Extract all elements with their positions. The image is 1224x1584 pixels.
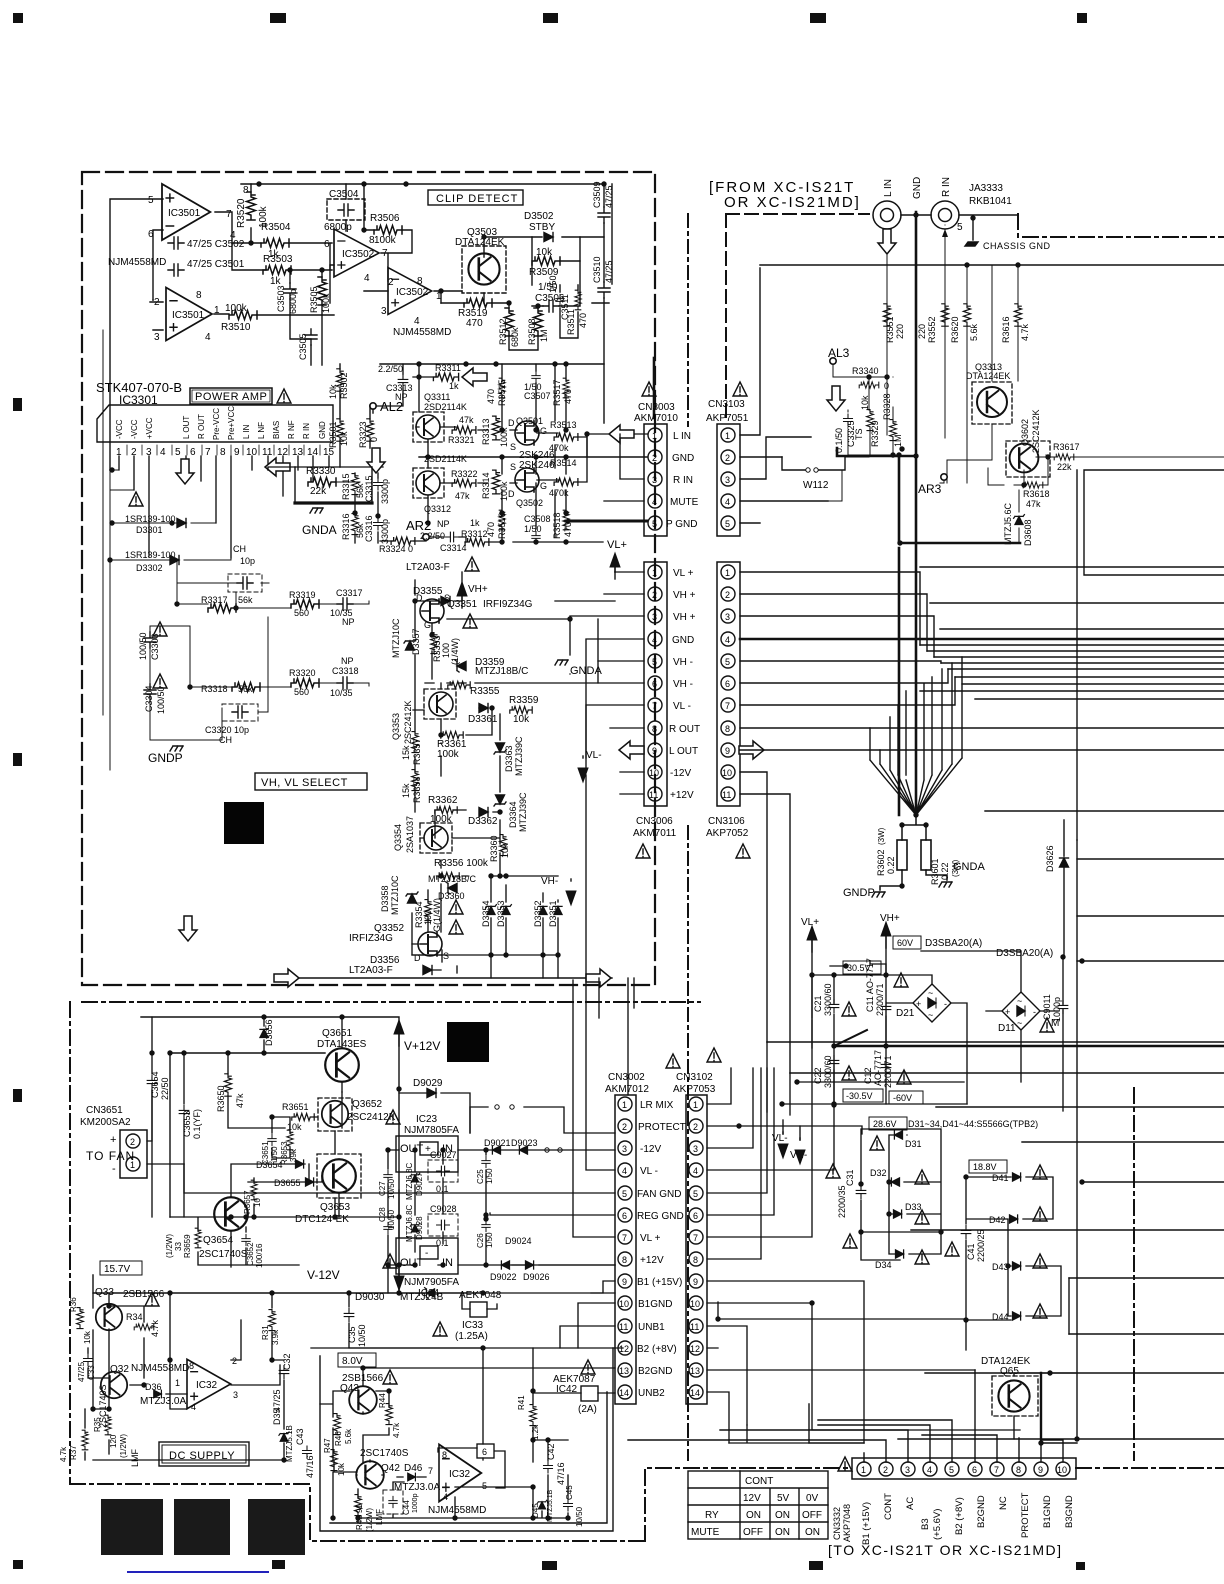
- capacitor C3325: [844, 414, 853, 426]
- thick drops to fan: [898, 548, 901, 815]
- capacitor C3651: [268, 1134, 276, 1145]
- svg-text:C26: C26: [476, 1233, 485, 1248]
- svg-text:LR MIX: LR MIX: [640, 1100, 674, 1111]
- svg-text:V-12V: V-12V: [307, 1268, 340, 1282]
- svg-text:C9011: C9011: [1042, 994, 1052, 1020]
- capacitor C3501: [168, 264, 184, 276]
- svg-text:10/35: 10/35: [330, 688, 353, 698]
- svg-text:8: 8: [369, 235, 375, 246]
- svg-text:B1GND: B1GND: [638, 1299, 672, 1310]
- pin numbers: [116, 447, 335, 458]
- bus pin1 VL+: [740, 572, 920, 645]
- svg-text:MUTE: MUTE: [691, 1527, 720, 1538]
- wire thick mute bus: [837, 448, 916, 456]
- resistor R3620 vertical: [963, 304, 970, 326]
- capacitor C3654: [147, 1076, 157, 1089]
- svg-text:IC3501: IC3501: [168, 208, 201, 219]
- ground GNDA: [939, 882, 952, 887]
- svg-text:R3322: R3322: [451, 469, 478, 479]
- diode D32: [891, 1178, 899, 1186]
- svg-text:R3506: R3506: [370, 213, 400, 224]
- svg-text:7: 7: [226, 209, 232, 220]
- svg-text:GNDA: GNDA: [302, 523, 337, 537]
- svg-text:10k: 10k: [337, 1462, 346, 1476]
- wires lower half: [428, 434, 587, 537]
- bus pin2 VH+: [740, 594, 927, 651]
- resistor R3511: [575, 290, 581, 310]
- black blob bottom-left 2: [174, 1499, 230, 1555]
- hollow down arrow left bottom: [179, 916, 197, 941]
- svg-text:CN3102: CN3102: [676, 1072, 713, 1083]
- svg-text:R IN: R IN: [673, 475, 693, 486]
- svg-text:LMF: LMF: [375, 1509, 384, 1525]
- connector CN3103 body: [717, 424, 740, 536]
- svg-text:NP: NP: [437, 519, 450, 529]
- registration mark bottom 3: [542, 1561, 557, 1570]
- svg-text:LMF: LMF: [130, 1448, 140, 1467]
- svg-text:MTZJ18B/C: MTZJ18B/C: [475, 666, 528, 677]
- svg-text:L OUT: L OUT: [182, 416, 191, 439]
- svg-text:AKP7052: AKP7052: [706, 828, 749, 839]
- node AL3: [830, 358, 836, 364]
- svg-text:22k: 22k: [1057, 462, 1072, 472]
- svg-text:POWER AMP: POWER AMP: [195, 391, 267, 403]
- svg-text:5: 5: [693, 1189, 698, 1199]
- svg-text:D35: D35: [272, 1408, 282, 1425]
- diode D43: [1013, 1262, 1021, 1270]
- jack R IN: [931, 201, 959, 229]
- svg-text:C3508: C3508: [524, 514, 551, 524]
- svg-text:BIAS: BIAS: [272, 421, 281, 439]
- svg-text:D3302: D3302: [136, 563, 163, 573]
- registration mark left 3: [13, 753, 22, 766]
- svg-text:VH -: VH -: [673, 657, 693, 668]
- svg-text:10: 10: [1057, 1465, 1067, 1475]
- svg-text:R3514: R3514: [550, 458, 577, 468]
- wires dc supply: [85, 1293, 283, 1460]
- svg-text:CONT: CONT: [883, 1493, 894, 1520]
- registration mark bottom 4: [809, 1561, 823, 1570]
- svg-text:11: 11: [649, 790, 658, 800]
- svg-text:5.6k: 5.6k: [969, 323, 979, 341]
- svg-text:9: 9: [622, 1277, 627, 1287]
- svg-text:MTZJ5.1B: MTZJ5.1B: [285, 1425, 294, 1462]
- svg-text:(3W): (3W): [877, 827, 886, 845]
- svg-text:2SC1740S: 2SC1740S: [360, 1448, 409, 1459]
- svg-text:Q3311: Q3311: [424, 392, 450, 402]
- V+12V arrow: [394, 1020, 404, 1046]
- resistor R44: [386, 1404, 393, 1425]
- op-amp U IC3501b: [166, 287, 212, 340]
- resistor R3316 vertical: [352, 514, 359, 535]
- black blob dc-dc area: [447, 1022, 489, 1062]
- svg-text:VL -: VL -: [673, 701, 691, 712]
- svg-text:5.6k: 5.6k: [344, 1428, 353, 1444]
- svg-text:L IN: L IN: [242, 424, 251, 439]
- svg-text:3: 3: [905, 1465, 910, 1475]
- resistor R3618: [1023, 482, 1043, 488]
- svg-text:8: 8: [622, 1255, 627, 1265]
- svg-text:VH+: VH+: [468, 584, 488, 595]
- svg-text:56k: 56k: [238, 595, 253, 605]
- svg-text:470: 470: [563, 389, 573, 404]
- svg-text:1M: 1M: [539, 329, 549, 342]
- diode D31: [870, 1136, 884, 1150]
- svg-text:10: 10: [690, 1299, 700, 1309]
- svg-text:1: 1: [725, 568, 730, 578]
- svg-text:R3510: R3510: [221, 322, 251, 333]
- registration mark top 4: [810, 13, 826, 23]
- diode D34: [896, 1250, 904, 1258]
- svg-text:VL +: VL +: [673, 568, 694, 579]
- svg-text:2: 2: [388, 277, 394, 288]
- svg-text:D32: D32: [870, 1168, 887, 1178]
- long line y1107: [936, 1106, 1224, 1108]
- svg-text:(1/2W): (1/2W): [365, 1508, 374, 1532]
- svg-text:6: 6: [482, 1447, 487, 1457]
- pin circles CN3103: [721, 428, 735, 442]
- resistor R3506: [374, 226, 402, 235]
- svg-text:C43: C43: [295, 1428, 305, 1445]
- chain separator between AKM and AKP columns lower: [687, 826, 689, 1460]
- svg-text:R3512: R3512: [498, 318, 508, 345]
- svg-text:ON: ON: [746, 1510, 761, 1521]
- resistor R3323 vertical: [366, 419, 373, 441]
- svg-text:2: 2: [130, 1137, 135, 1147]
- resistor R3552 vertical: [941, 304, 948, 326]
- svg-text:AKP7053: AKP7053: [673, 1084, 716, 1095]
- chain border to connector row: [645, 1468, 852, 1541]
- svg-text:R OUT: R OUT: [197, 414, 206, 439]
- pin separators: [127, 445, 320, 455]
- svg-text:TS: TS: [854, 428, 864, 440]
- svg-text:D9024: D9024: [505, 1236, 532, 1246]
- svg-text:IC32: IC32: [449, 1469, 471, 1480]
- svg-text:3300p: 3300p: [380, 519, 390, 544]
- pin circles CN3003: [648, 428, 662, 442]
- svg-text:D9028: D9028: [415, 1216, 424, 1240]
- wires row1: [177, 560, 369, 608]
- svg-text:R3617: R3617: [1053, 442, 1080, 452]
- svg-text:CN3106: CN3106: [708, 816, 745, 827]
- resistor R3516 vertical: [499, 510, 505, 530]
- svg-text:11: 11: [722, 790, 731, 800]
- bus pin6: [740, 669, 948, 683]
- svg-text:1: 1: [725, 431, 730, 441]
- bus GND thick: [740, 638, 1224, 641]
- svg-text:IC32: IC32: [196, 1380, 218, 1391]
- registration mark top 5: [1077, 13, 1087, 23]
- resistor R3551 vertical: [883, 304, 890, 326]
- diode D41: [1013, 1173, 1021, 1181]
- svg-text:R37: R37: [69, 1445, 78, 1460]
- svg-text:VL+: VL+: [607, 539, 627, 551]
- hollow arrow below pin5: [176, 459, 194, 484]
- long line y1373: [925, 1372, 1224, 1374]
- svg-text:4.7k: 4.7k: [1020, 323, 1030, 341]
- svg-text:CN3006: CN3006: [636, 816, 673, 827]
- svg-text:4: 4: [927, 1465, 932, 1475]
- diode D42: [1010, 1215, 1018, 1223]
- svg-text:-: -: [944, 999, 947, 1009]
- regulator IC23: [386, 1110, 400, 1124]
- resistor R3503: [263, 266, 291, 275]
- svg-text:3300/60: 3300/60: [823, 983, 833, 1016]
- svg-text:0.22: 0.22: [886, 856, 896, 874]
- long line y1230: [911, 1229, 1224, 1231]
- svg-text:R47: R47: [323, 1438, 332, 1453]
- svg-text:12: 12: [690, 1344, 700, 1354]
- svg-text:+: +: [916, 999, 921, 1009]
- svg-text:7: 7: [725, 701, 730, 711]
- svg-text:STBY: STBY: [529, 222, 555, 233]
- long line y1182: [1082, 1181, 1224, 1183]
- svg-text:Q42: Q42: [381, 1463, 400, 1474]
- svg-text:10k: 10k: [500, 843, 510, 858]
- wires upper half: [376, 364, 647, 457]
- svg-text:Q33: Q33: [95, 1287, 114, 1298]
- long line y916: [1077, 915, 1224, 917]
- svg-text:M: M: [1051, 1018, 1059, 1029]
- svg-text:R OUT: R OUT: [669, 724, 700, 735]
- svg-text:2SB1566: 2SB1566: [123, 1289, 165, 1300]
- resistor R3508: [534, 308, 543, 336]
- capacitor C9028 dashed: [428, 1214, 458, 1236]
- svg-text:R35: R35: [93, 1417, 102, 1432]
- svg-text:3: 3: [622, 1144, 627, 1154]
- svg-text:C3320 10p: C3320 10p: [205, 725, 249, 735]
- resistor R3324: [391, 537, 415, 545]
- svg-text:D9026: D9026: [523, 1272, 550, 1282]
- svg-text:C41: C41: [966, 1243, 976, 1260]
- svg-text:7: 7: [622, 1233, 627, 1243]
- svg-text:B3GND: B3GND: [1064, 1495, 1075, 1528]
- svg-text:D3363: D3363: [504, 745, 514, 772]
- svg-text:-: -: [112, 1163, 116, 1175]
- chain border right edge of bottom board: [1133, 1088, 1135, 1460]
- long line y1042: [767, 1041, 1224, 1043]
- svg-text:R3340: R3340: [852, 366, 879, 376]
- svg-text:60V: 60V: [897, 938, 913, 948]
- capacitor C33: [84, 1354, 93, 1366]
- resistor R3650: [224, 1074, 231, 1096]
- svg-text:470: 470: [578, 313, 588, 328]
- svg-text:VL -: VL -: [640, 1166, 658, 1177]
- svg-text:4.7k: 4.7k: [59, 1446, 68, 1462]
- svg-text:5: 5: [148, 195, 154, 206]
- black blob power-amp select area: [224, 802, 264, 844]
- svg-text:CN3651: CN3651: [86, 1105, 123, 1116]
- svg-text:CN3332: CN3332: [832, 1507, 842, 1540]
- svg-text:C44: C44: [402, 1500, 411, 1515]
- svg-text:AC: AC: [905, 1497, 916, 1510]
- transistor Q3654: [214, 1197, 248, 1231]
- resistor R36: [77, 1308, 84, 1329]
- D41 chain wires: [718, 1177, 1061, 1350]
- svg-text:OR XC-IS21MD]: OR XC-IS21MD]: [724, 194, 861, 211]
- svg-text:R3324 0: R3324 0: [379, 544, 413, 554]
- resistor R3504: [261, 239, 289, 248]
- registration mark left 2: [13, 398, 22, 411]
- svg-text:47k: 47k: [459, 415, 474, 425]
- resistor R41: [530, 1405, 537, 1426]
- svg-text:2: 2: [652, 453, 657, 463]
- svg-text:47k: 47k: [1026, 499, 1041, 509]
- svg-text:10/50: 10/50: [575, 1506, 584, 1527]
- svg-text:DTA124EK: DTA124EK: [455, 237, 505, 248]
- svg-text:R41: R41: [517, 1395, 526, 1410]
- VH+ arrow: [457, 582, 467, 608]
- registration mark bottom 2: [272, 1560, 285, 1569]
- capacitor C3510 right rail: [598, 282, 610, 298]
- svg-text:NJM4558MD: NJM4558MD: [131, 1363, 189, 1374]
- svg-text:2SD2114K: 2SD2114K: [424, 402, 467, 412]
- resistor R3517 vertical: [563, 378, 569, 398]
- chain border right of connector row: [1076, 1467, 1224, 1469]
- resistor R3354 vertical: [425, 900, 432, 921]
- svg-text:4: 4: [191, 1402, 196, 1412]
- thick P GND wire: [566, 520, 647, 523]
- svg-text:C3510: C3510: [592, 256, 602, 283]
- svg-text:D9022: D9022: [490, 1272, 517, 1282]
- svg-text:L OUT: L OUT: [669, 746, 698, 757]
- warning triangle lower: [129, 492, 143, 506]
- svg-text:R3601: R3601: [930, 858, 940, 885]
- svg-text:R3323: R3323: [358, 421, 368, 448]
- svg-text:3: 3: [233, 1390, 238, 1400]
- arrowhead R IN drop: [942, 229, 948, 237]
- resistor R45: [355, 1495, 362, 1516]
- bridge wires: [812, 951, 1063, 1111]
- svg-text:GNDA: GNDA: [953, 861, 985, 873]
- resistor R3653: [287, 1130, 293, 1150]
- connector CN3003 body: [644, 424, 667, 536]
- svg-text:6: 6: [622, 1211, 627, 1221]
- svg-text:22k: 22k: [310, 486, 327, 497]
- svg-text:10/50: 10/50: [357, 1324, 367, 1347]
- resistor R3358 vertical: [412, 770, 419, 791]
- svg-text:Q3354: Q3354: [393, 824, 403, 851]
- bus -12V: [740, 772, 767, 1042]
- resistor R3314 vertical: [492, 470, 500, 494]
- svg-text:R3357: R3357: [412, 738, 422, 765]
- svg-text:1k: 1k: [470, 518, 480, 528]
- svg-text:8: 8: [1016, 1465, 1021, 1475]
- svg-text:47/25 C3502: 47/25 C3502: [187, 239, 245, 250]
- op-amp U IC3501a: [162, 184, 210, 240]
- svg-text:470: 470: [466, 318, 483, 329]
- svg-text:LT2A03-F: LT2A03-F: [349, 965, 393, 976]
- ground GNDP left: [170, 746, 183, 751]
- svg-text:IC23: IC23: [416, 1114, 438, 1125]
- bus +12V: [740, 794, 790, 1073]
- svg-text:L IN: L IN: [883, 179, 894, 197]
- svg-text:2SC2412K: 2SC2412K: [347, 1112, 396, 1123]
- hollow arrow pin9 left: [619, 741, 644, 759]
- power amp label box: [190, 388, 272, 404]
- svg-text:9: 9: [652, 746, 657, 756]
- svg-text:C3316: C3316: [364, 515, 374, 542]
- capacitor C44 dashed: [383, 1490, 403, 1514]
- svg-text:R3659: R3659: [183, 1234, 192, 1258]
- capacitor C3504 dashed: [327, 199, 365, 220]
- svg-text:D: D: [508, 418, 515, 428]
- svg-text:R3329: R3329: [870, 420, 880, 447]
- connector CN3002 body: [615, 1095, 636, 1404]
- svg-text:MTZJ10C: MTZJ10C: [390, 875, 400, 915]
- svg-text:3: 3: [652, 612, 657, 622]
- svg-text:R3513: R3513: [550, 420, 577, 430]
- svg-text:CN3103: CN3103: [708, 399, 745, 410]
- svg-text:-VCC: -VCC: [115, 419, 124, 439]
- pin stubs: [119, 456, 329, 558]
- svg-text:MTZJ39C: MTZJ39C: [518, 792, 528, 832]
- resistor R3313 vertical: [492, 416, 500, 440]
- svg-text:JA3333: JA3333: [969, 183, 1003, 194]
- registration mark bottom-left: [13, 1560, 23, 1569]
- svg-text:2: 2: [622, 1122, 627, 1132]
- resistor R3520: [247, 192, 256, 220]
- svg-text:C31: C31: [845, 1169, 855, 1186]
- svg-text:R3314: R3314: [481, 472, 491, 499]
- svg-text:C3315: C3315: [364, 475, 374, 502]
- long line y961: [1077, 960, 1224, 962]
- 28.6V box: [869, 1117, 907, 1130]
- svg-text:0.1: 0.1: [436, 1238, 449, 1248]
- svg-text:D34: D34: [875, 1260, 892, 1270]
- svg-text:+: +: [110, 1134, 116, 1146]
- V-12V arrow: [394, 1264, 404, 1290]
- svg-text:Q3353: Q3353: [391, 713, 401, 740]
- svg-text:LT2A03-F: LT2A03-F: [406, 562, 450, 573]
- svg-text:+VCC: +VCC: [145, 417, 154, 439]
- svg-text:MTZJ5.6C: MTZJ5.6C: [1003, 502, 1013, 545]
- registration mark top 2: [270, 13, 286, 23]
- mid rail pin2: [419, 456, 647, 458]
- svg-text:R3316: R3316: [341, 513, 351, 540]
- chain border bottom shelf: [70, 1484, 645, 1541]
- svg-text:-30.5V: -30.5V: [846, 1091, 873, 1101]
- op-amp IC32a: [187, 1359, 231, 1408]
- 8.0V sub box border: [320, 1348, 613, 1531]
- bus R OUT: [740, 727, 1224, 729]
- op-amp U IC3502b: [388, 268, 432, 315]
- wire opamp1 out: [110, 199, 266, 470]
- svg-text:R3503: R3503: [263, 254, 293, 265]
- DC SUPPLY box: [159, 1442, 249, 1466]
- bridge D11: [1002, 992, 1040, 1030]
- svg-text:8: 8: [442, 1450, 447, 1460]
- svg-text:DTC124-EK: DTC124-EK: [295, 1214, 349, 1225]
- power amp board dashed border: [82, 172, 655, 985]
- svg-text:R IN: R IN: [302, 423, 311, 439]
- select net wires: [412, 580, 558, 973]
- resistor R3501 vertical: [336, 419, 343, 441]
- svg-text:R36: R36: [69, 1297, 78, 1312]
- svg-text:D41: D41: [992, 1173, 1009, 1183]
- bridge D21: [913, 984, 951, 1022]
- resistor R3357 vertical: [412, 732, 419, 753]
- svg-text:D3502: D3502: [524, 211, 554, 222]
- svg-text:KM200SA2: KM200SA2: [80, 1117, 131, 1128]
- resistor R3315 vertical: [352, 474, 359, 495]
- fan node dot: [913, 812, 918, 817]
- svg-text:GND: GND: [318, 421, 327, 439]
- svg-text:3: 3: [693, 1144, 698, 1154]
- svg-text:15k: 15k: [401, 745, 411, 760]
- svg-text:100/50: 100/50: [138, 632, 148, 660]
- svg-text:B3: B3: [920, 1518, 931, 1530]
